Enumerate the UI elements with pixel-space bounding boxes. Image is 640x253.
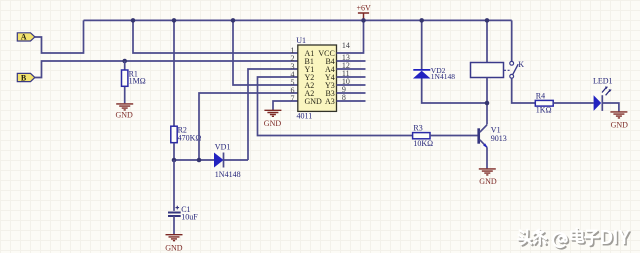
svg-text:K: K	[518, 60, 524, 69]
wire +6V rail	[84, 19, 512, 21]
svg-text:10KΩ: 10KΩ	[413, 139, 433, 148]
svg-text:1MΩ: 1MΩ	[129, 76, 146, 85]
wire pin4 to R3	[258, 77, 413, 136]
wire R1 leads	[124, 61, 126, 103]
svg-text:1N4148: 1N4148	[215, 170, 241, 179]
svg-text:R3: R3	[413, 124, 422, 133]
svg-text:10uF: 10uF	[181, 213, 198, 222]
svg-text:R4: R4	[536, 91, 545, 100]
wire A-to-rail	[35, 20, 84, 53]
ground C1	[166, 235, 183, 241]
wire pin9 stub	[337, 92, 366, 94]
resistor R4	[535, 100, 553, 106]
relay K coil	[471, 20, 504, 124]
junction R2 top	[172, 18, 177, 23]
svg-text:GND: GND	[165, 244, 183, 253]
svg-text:VD1: VD1	[215, 143, 231, 152]
svg-text:GND: GND	[611, 121, 629, 130]
wire pin5 riser	[233, 20, 298, 85]
wire R2 bottom	[173, 143, 175, 160]
node B	[17, 73, 35, 82]
ground R1	[116, 104, 133, 110]
watermark 头条@电子DIY	[518, 227, 632, 250]
junction VD2 top	[419, 18, 424, 23]
junction pin1	[131, 18, 136, 23]
wire pin12 stub	[337, 68, 366, 70]
wire R4 to LED	[553, 102, 593, 104]
wire pin1 drop	[133, 20, 298, 53]
junction +6V	[361, 18, 366, 23]
wire pin6 drop	[199, 93, 298, 160]
resistor R3	[413, 133, 430, 139]
diode VD1	[214, 153, 224, 168]
wire LED to ground	[602, 103, 619, 111]
svg-text:1N4148: 1N4148	[431, 72, 455, 81]
svg-text:4011: 4011	[297, 111, 313, 120]
svg-text:A: A	[21, 33, 27, 42]
svg-text:14: 14	[342, 41, 350, 50]
svg-text:LED1: LED1	[593, 76, 613, 85]
ground V1	[479, 169, 496, 175]
wire B to pin2	[35, 61, 298, 78]
junction pin5 riser	[231, 18, 236, 23]
resistor R2	[171, 126, 177, 143]
ground LED	[610, 112, 627, 118]
capacitor C1	[168, 160, 181, 234]
junction relay bottom	[485, 101, 490, 106]
svg-text:GND: GND	[264, 119, 282, 128]
switch K	[510, 20, 535, 103]
wire VD1 row	[174, 159, 248, 161]
svg-text:A3: A3	[325, 97, 335, 106]
relay dashed link	[504, 69, 510, 71]
svg-text:U1: U1	[296, 36, 306, 45]
junction pin6-VD1	[197, 158, 202, 163]
LED LED1	[594, 87, 612, 111]
svg-text:B: B	[21, 73, 27, 82]
IC U1 4011	[298, 45, 337, 111]
junction R2-C1-VD1	[172, 158, 177, 163]
wire pin8 stub	[337, 100, 366, 102]
resistor R1	[122, 70, 128, 86]
power +6V	[357, 4, 372, 21]
junction R1 top	[122, 59, 127, 64]
diode VD2	[413, 20, 487, 103]
wire pin10 stub	[337, 84, 366, 86]
wire pin7 to ground	[273, 101, 298, 110]
wire pin3 to VD1	[248, 69, 298, 160]
junction relay top	[485, 18, 490, 23]
svg-text:7: 7	[291, 94, 295, 103]
wire pin13 stub	[337, 60, 366, 62]
transistor V1	[479, 125, 488, 169]
ground U1	[264, 110, 281, 116]
svg-text:470KΩ: 470KΩ	[178, 133, 202, 142]
wire pin11 stub	[337, 76, 366, 78]
svg-text:GND: GND	[116, 111, 134, 120]
svg-text:GND: GND	[479, 177, 497, 186]
svg-text:DIY: DIY	[600, 227, 631, 249]
svg-text:+6V: +6V	[357, 4, 372, 13]
wire pin14 to rail	[337, 20, 364, 53]
wire R2 drop	[173, 20, 175, 126]
wire R3 to base	[430, 135, 478, 137]
svg-text:GND: GND	[305, 97, 323, 106]
svg-text:1KΩ: 1KΩ	[536, 106, 552, 115]
svg-text:9013: 9013	[491, 134, 507, 143]
node A	[17, 33, 35, 42]
